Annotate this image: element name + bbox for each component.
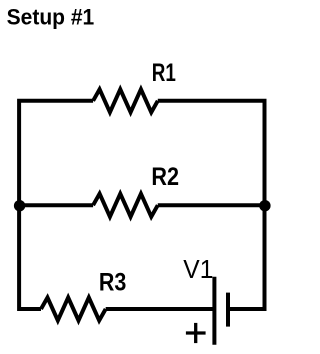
resistor R2 zigzag — [93, 194, 158, 217]
battery V1 positive plate (long) — [212, 277, 216, 345]
wire: bottom wire from R3 to battery positive plate — [106, 307, 213, 311]
svg-text:R2: R2 — [151, 162, 179, 190]
resistor R1 zigzag — [93, 89, 158, 112]
junction node dot left — [14, 200, 25, 211]
svg-text:Setup #1: Setup #1 — [7, 5, 95, 30]
junction node dot right — [259, 200, 270, 211]
wire: middle wire left part — [19, 203, 93, 207]
svg-text:R3: R3 — [99, 268, 126, 296]
svg-text:V1: V1 — [183, 255, 213, 284]
battery plus sign — [186, 323, 206, 343]
wire: top wire left part + left vertical wire + bottom-left corner — [19, 101, 93, 309]
resistor R3 zigzag — [41, 298, 106, 321]
svg-text:R1: R1 — [152, 58, 176, 86]
battery V1 negative plate (short) — [226, 293, 230, 327]
wire: middle wire right part — [158, 203, 265, 207]
wire: top wire right part + right vertical wire + bottom-right to battery negative plate — [158, 101, 265, 309]
